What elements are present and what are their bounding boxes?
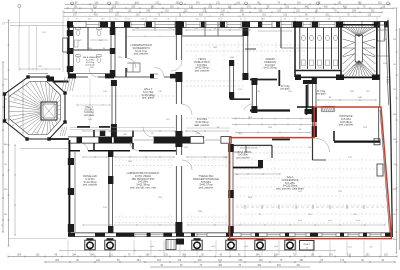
fan staircase treads lower bbox=[343, 42, 376, 76]
svg-text:ped. parchet: ped. parchet bbox=[199, 186, 214, 190]
upper-left rooms: wall y77 bbox=[68, 74, 176, 79]
wall x306.5 y85-115 bbox=[306, 85, 308, 115]
fan staircase treads upper bbox=[343, 26, 376, 57]
svg-text:lw-th: lw-th bbox=[356, 219, 360, 222]
grid reference bubbles top bbox=[71, 2, 390, 5]
svg-text:ped. parchet: ped. parchet bbox=[339, 123, 354, 127]
secretariat room left wall x126 bbox=[125, 27, 136, 77]
left dimension band bbox=[2, 20, 16, 246]
svg-text:HALL 1: HALL 1 bbox=[85, 106, 93, 109]
wall x314 upper (under red vertical) bbox=[312, 77, 317, 137]
toilet block walls x110-115 bbox=[69, 27, 115, 77]
svg-text:lw-th: lw-th bbox=[298, 219, 302, 222]
outer left wall lower segment bbox=[68, 140, 75, 233]
octagon jog wall to building bbox=[47, 77, 69, 82]
ceiling grid dashed lines bbox=[72, 42, 387, 230]
room top walls y150.8 left rooms bbox=[69, 149, 176, 152]
interior dim row y225 in sala bbox=[83, 205, 388, 226]
door arc below red corner bbox=[316, 139, 330, 153]
octagon radial stair treads bbox=[9, 82, 61, 135]
svg-text:ped gard: ped gard bbox=[316, 93, 326, 96]
main spine wall x176-182 bbox=[175, 21, 183, 233]
svg-text:ped. parchet: ped. parchet bbox=[83, 183, 98, 187]
left wing stray texts bbox=[1, 95, 67, 239]
svg-text:WC: WC bbox=[78, 40, 82, 42]
cells bottom wall y70.5 bbox=[295, 70, 341, 72]
column pads with circles along bottom bbox=[85, 238, 374, 250]
thin wall y36 top strip bbox=[182, 35, 243, 37]
red highlighted area outline bbox=[230, 107, 392, 239]
svg-text:S=12.05mp: S=12.05mp bbox=[263, 66, 277, 70]
svg-text:lw-th: lw-th bbox=[328, 219, 332, 222]
corridor east of stair bbox=[377, 21, 389, 107]
svg-text:ped. pvc lab. met. mixt: ped. pvc lab. met. mixt bbox=[130, 186, 156, 190]
corridor wall y137-143 bbox=[68, 130, 231, 151]
octagon newel square bbox=[41, 102, 57, 120]
bottom dimension band bbox=[8, 250, 397, 268]
right dimension band bbox=[386, 8, 399, 253]
cell wall x279 y70-86 bbox=[278, 70, 280, 86]
gideri room bottom wall y110.5 bbox=[250, 109, 290, 111]
cells bottom wall y79.5 x250-277 bbox=[250, 79, 277, 81]
svg-text:kp90: kp90 bbox=[150, 246, 154, 248]
upper-middle wall x243-248 (top tee) bbox=[242, 28, 248, 80]
tsekaltan east wall x229-233 (under red) bbox=[228, 144, 234, 233]
corridor wall stubs bbox=[93, 130, 95, 137]
sala wall stubs along east edge bbox=[272, 139, 383, 177]
outer bottom wall with windows bbox=[68, 233, 392, 237]
toilet fixtures upper-left bbox=[63, 28, 101, 63]
interior dim tick lines bbox=[22, 29, 376, 222]
corridor dim rows y118-131 bbox=[232, 118, 313, 120]
top-left corner dim lines bbox=[2, 22, 64, 24]
proteice room bottom wall y141.6 bbox=[334, 107, 381, 142]
svg-text:kp90: kp90 bbox=[244, 246, 248, 248]
tidus east wall x231.5 upper bbox=[229, 60, 231, 98]
rosallad-laborator wall x110 lower bbox=[108, 151, 113, 233]
wall below octagon bbox=[20, 139, 69, 149]
octagon top step outline bbox=[28, 73, 48, 75]
octagonal stair tower outer wall bbox=[5, 77, 66, 139]
beam line y128 across left wing bbox=[70, 78, 230, 129]
octagonal stair tower inner ring bbox=[9, 82, 61, 135]
hatched door opening top of proteice bbox=[322, 106, 335, 112]
wall y107 x295-314 bbox=[297, 106, 314, 108]
interior dimension texts bbox=[88, 28, 387, 216]
svg-text:kp90: kp90 bbox=[274, 246, 278, 248]
svg-text:ped. parchet: ped. parchet bbox=[134, 52, 149, 56]
wall y77 below cells and stair bbox=[295, 75, 380, 81]
wall x281 upper bbox=[280, 28, 282, 48]
outer right wall slanted bbox=[380, 20, 392, 237]
cabina media walls bbox=[233, 145, 272, 168]
svg-text:ped. parchet. Sala Mare: ped. parchet. Sala Mare bbox=[276, 187, 304, 191]
spine wall footing block bbox=[176, 239, 184, 245]
vestibule wall y129 left bbox=[77, 127, 110, 136]
svg-text:kp90: kp90 bbox=[211, 246, 215, 248]
top dimension band bbox=[2, 2, 394, 28]
door swing arcs bbox=[80, 60, 253, 170]
hatched wedge SE of octagon bbox=[60, 127, 67, 136]
outer top wall with window bays bbox=[67, 21, 389, 27]
secretariat closet bottom-left bbox=[127, 63, 140, 72]
svg-text:ped. parchet: ped. parchet bbox=[236, 156, 250, 159]
wall x111-115 mid (hall west wall) bbox=[111, 80, 117, 137]
svg-text:ped. glade: ped. glade bbox=[142, 96, 155, 100]
small room wall x308 y83-107 bbox=[307, 83, 309, 107]
svg-text:WC: WC bbox=[99, 40, 103, 42]
room labels bbox=[78, 40, 353, 191]
svg-text:VIGA 1: VIGA 1 bbox=[303, 243, 311, 246]
viga 1 box bbox=[300, 241, 315, 251]
fan staircase central flight bbox=[355, 35, 362, 62]
svg-text:ped. parchet: ped. parchet bbox=[195, 69, 210, 73]
fan staircase enclosure bbox=[341, 25, 377, 78]
small cells x295-341 bbox=[281, 21, 341, 77]
outer left wall upper segment bbox=[63, 10, 73, 74]
upper-middle wall x252-257 (gideri west wall) bbox=[229, 49, 313, 126]
svg-text:ped glade: ped glade bbox=[84, 115, 95, 117]
entry hatch NW corner bbox=[62, 77, 75, 91]
basement stair rect below wall bbox=[166, 240, 176, 250]
